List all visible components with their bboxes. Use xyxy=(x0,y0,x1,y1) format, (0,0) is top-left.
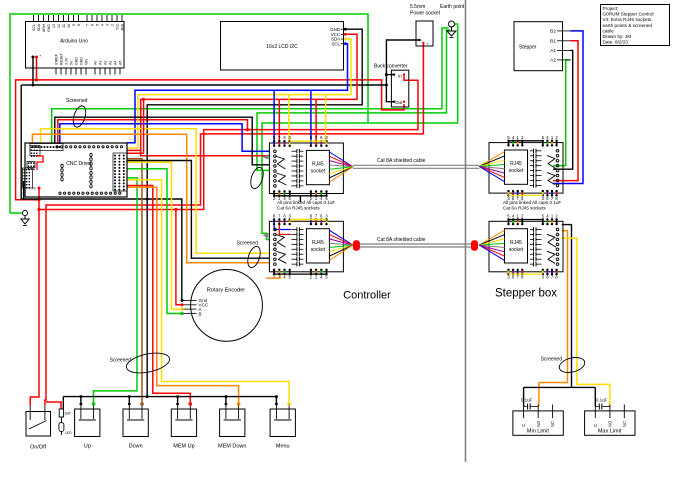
wire black Arduino GND rail xyxy=(33,57,386,85)
svg-text:Out: Out xyxy=(395,100,403,105)
wire red branch into CNC 5V xyxy=(38,188,40,210)
svg-text:A5: A5 xyxy=(118,61,122,65)
svg-text:cable: cable xyxy=(603,28,615,33)
push button SW2 Up xyxy=(75,403,100,450)
wire red LCD VCC to CNC and RJ45 socket 1 xyxy=(141,34,357,156)
wire black GND to rotary encoder Gnd xyxy=(24,199,182,300)
wire brown CNC to Down button xyxy=(127,159,142,404)
project title box xyxy=(601,5,670,46)
svg-text:5: 5 xyxy=(95,24,99,26)
svg-text:A4: A4 xyxy=(113,61,117,65)
wire black stub below RJ45 socket 1 xyxy=(299,197,301,203)
RJ45 socket J4 (stepper box upper) xyxy=(479,135,563,201)
screened cable symbol at button bundle xyxy=(110,350,172,377)
wire black CNC to RJ45 socket 1 row xyxy=(55,117,270,165)
wire red CNC 5V to power rail xyxy=(58,120,248,143)
svg-text:0V: 0V xyxy=(32,187,37,191)
wire blue RJ45 socket 2 pin 8 row xyxy=(274,224,291,230)
screened cable symbol stepper box xyxy=(541,355,587,375)
svg-text:A1: A1 xyxy=(550,48,556,54)
RJ45 socket J2 (controller upper) xyxy=(262,135,353,201)
svg-text:9: 9 xyxy=(72,24,76,26)
junction red xyxy=(246,128,249,131)
svg-text:RJ45: RJ45 xyxy=(510,240,522,246)
wire red CNC to MEM Up button xyxy=(127,186,190,405)
limit switch SW7 Min Limit xyxy=(513,398,563,436)
wire yellow LCD SDA to CNC driver xyxy=(127,39,351,148)
RJ45 socket J5 (stepper box lower) xyxy=(479,214,563,280)
wire orange RJ45 to Min Limit NO xyxy=(539,231,568,406)
wire black CNC to RJ45 socket 2 row xyxy=(127,161,269,259)
svg-text:Screened: Screened xyxy=(237,241,259,247)
junction black bus xyxy=(224,395,227,398)
wire black bus drop to button xyxy=(128,397,130,404)
junction black xyxy=(385,84,388,87)
svg-text:Controller: Controller xyxy=(343,290,391,302)
svg-text:Tx1: Tx1 xyxy=(115,24,119,30)
svg-text:GND: GND xyxy=(79,57,83,65)
push button SW5 MEM Down xyxy=(218,403,246,450)
screened cable symbol top left xyxy=(66,98,88,129)
svg-text:Earth point: Earth point xyxy=(440,4,465,10)
svg-text:0.1uF: 0.1uF xyxy=(521,398,533,403)
junction black bus xyxy=(176,395,179,398)
svg-text:0.1uF: 0.1uF xyxy=(596,398,608,403)
svg-text:socket: socket xyxy=(509,247,524,253)
wire blue CNC to RJ45 socket 1 row xyxy=(60,124,270,152)
wire black jog xyxy=(21,84,33,86)
junction black bus xyxy=(128,395,131,398)
resistor R1 1kR xyxy=(59,409,71,417)
wire red buck In+ rail to On/Off switch left pin xyxy=(30,77,418,405)
svg-text:Cat 8A shielded cable: Cat 8A shielded cable xyxy=(377,158,426,164)
svg-text:Menu: Menu xyxy=(276,444,290,450)
stepper motor M1 xyxy=(514,22,571,71)
wire yellow CNC to encoder A xyxy=(127,162,182,309)
RJ45 socket J3 (controller lower) xyxy=(262,214,353,280)
svg-text:3.3V: 3.3V xyxy=(64,57,68,65)
svg-text:RESET: RESET xyxy=(59,52,63,65)
wire red left rail to On/Off feed xyxy=(16,80,39,200)
wire red drop to RJ45 pin 7 xyxy=(278,99,280,141)
wire green earth: RJ45 socket 1 screen to earth point xyxy=(257,30,450,170)
wire green earth: CNC screen to earth point xyxy=(52,28,449,143)
svg-text:V4: Extra RJ45 sockets,: V4: Extra RJ45 sockets, xyxy=(603,17,653,22)
svg-text:RJ45: RJ45 xyxy=(510,161,522,167)
svg-text:CNC Driver: CNC Driver xyxy=(66,161,92,167)
wire yellow CNC to Menu button xyxy=(127,180,289,404)
CNC driver board U3 xyxy=(23,143,128,197)
screened cable symbol at RJ45 socket 2 xyxy=(237,241,263,270)
wire red RJ45 socket 2 pin 7 row xyxy=(279,224,291,234)
svg-text:In: In xyxy=(398,74,402,79)
push button SW4 MEM Up xyxy=(171,403,196,450)
wire black bus drop to button xyxy=(225,397,227,404)
svg-text:1kR: 1kR xyxy=(65,412,72,416)
wire black button common bus xyxy=(63,396,276,398)
svg-text:4: 4 xyxy=(100,24,104,26)
junction red xyxy=(37,198,40,201)
svg-text:B: B xyxy=(199,311,202,316)
wire red branch to rotary encoder VCC xyxy=(176,210,182,305)
wire orange CNC to RJ45 socket 2 xyxy=(32,134,269,263)
Arduino Uno U1 xyxy=(26,15,125,75)
svg-text:Down: Down xyxy=(129,444,143,450)
wire blue LCD SCL to CNC driver xyxy=(127,44,348,143)
Cat 8A shielded cable lower xyxy=(353,237,478,251)
wire black stepper A1 xyxy=(553,50,573,169)
red cable boot right xyxy=(471,240,478,251)
wire orange CNC to MEM Down button xyxy=(127,187,239,404)
svg-text:SCL: SCL xyxy=(32,24,36,31)
svg-text:Rx0: Rx0 xyxy=(120,24,124,30)
wire blue drop to RJ45 pin 8 xyxy=(310,90,312,141)
wire black bus to LED chain xyxy=(62,397,64,409)
wire yellow RJ45 to Max Limit NO xyxy=(562,238,610,406)
svg-text:NO: NO xyxy=(536,420,541,427)
divider line between Controller and Stepper box sections xyxy=(465,0,467,462)
note text under controller sockets xyxy=(277,200,335,210)
svg-text:Cat 8A shielded cable: Cat 8A shielded cable xyxy=(377,237,426,243)
svg-text:C: C xyxy=(521,424,526,427)
svg-text:G0RUM Stepper Control: G0RUM Stepper Control xyxy=(603,12,654,17)
svg-text:socket: socket xyxy=(311,247,326,253)
svg-text:Project:: Project: xyxy=(603,6,619,11)
svg-text:2: 2 xyxy=(110,24,114,26)
wire black power socket - to buck Out- xyxy=(386,40,419,102)
svg-text:NC: NC xyxy=(622,421,627,427)
svg-text:RJ45: RJ45 xyxy=(312,162,324,168)
svg-text:SCL: SCL xyxy=(331,41,340,46)
chassis ground symbol near CNC xyxy=(21,210,29,225)
svg-text:A1: A1 xyxy=(98,61,102,65)
limit switch SW8 Max Limit xyxy=(585,398,635,436)
svg-text:Arduino Uno: Arduino Uno xyxy=(60,39,88,45)
wire black LCD GND down to button bus xyxy=(147,29,362,396)
svg-text:5V: 5V xyxy=(29,161,34,165)
wire red CNC 5V tee xyxy=(143,99,145,153)
wire red CNC row xyxy=(127,152,144,154)
On/Off switch SW1 xyxy=(26,405,51,451)
svg-text:A0: A0 xyxy=(93,61,97,65)
svg-text:Rotary Encoder: Rotary Encoder xyxy=(207,288,245,294)
svg-text:LED: LED xyxy=(65,431,72,435)
svg-text:Up: Up xyxy=(84,444,91,450)
buck converter U2 xyxy=(374,64,409,108)
svg-text:10: 10 xyxy=(67,24,71,28)
svg-text:Screened: Screened xyxy=(66,98,88,104)
junction red xyxy=(174,208,177,211)
wire red stepper B1 xyxy=(553,41,578,181)
svg-text:C: C xyxy=(593,424,598,427)
junction black xyxy=(32,84,35,87)
note text under stepper sockets xyxy=(503,200,561,210)
svg-text:Cat 6A RJ45 sockets: Cat 6A RJ45 sockets xyxy=(277,205,320,210)
junction black bus xyxy=(275,395,278,398)
junction black xyxy=(385,73,388,76)
wire green earth loop left/top border xyxy=(10,14,368,213)
svg-text:NC: NC xyxy=(550,421,555,427)
svg-text:Min Limit: Min Limit xyxy=(527,429,549,435)
wire black GND down to CNC 0V xyxy=(21,85,23,199)
svg-text:11: 11 xyxy=(62,24,66,28)
svg-text:16x2 LCD I2C: 16x2 LCD I2C xyxy=(266,44,298,50)
svg-text:12: 12 xyxy=(57,24,61,28)
junction red xyxy=(35,78,38,81)
wire black branch buck In- xyxy=(386,74,394,76)
screened cable symbol at RJ45 socket 1 xyxy=(248,166,265,190)
svg-text:A3: A3 xyxy=(108,61,112,65)
svg-text:Stepper: Stepper xyxy=(519,45,537,51)
svg-text:NO: NO xyxy=(608,420,613,427)
push button SW6 Menu xyxy=(270,403,295,450)
svg-text:A2: A2 xyxy=(550,58,556,64)
wire green CNC to encoder B xyxy=(127,169,182,314)
svg-text:MEM Down: MEM Down xyxy=(218,444,246,450)
wire green stepper A2 xyxy=(553,60,571,166)
wire yellow CNC to RJ45 socket 2 xyxy=(41,129,270,254)
16x2 LCD I2C display xyxy=(221,22,347,71)
svg-text:socket: socket xyxy=(509,168,524,174)
svg-text:B1: B1 xyxy=(550,39,556,45)
wire red drop to RJ45 pin 7 xyxy=(315,99,317,141)
push button SW3 Down xyxy=(123,403,148,450)
svg-text:GND: GND xyxy=(47,24,51,32)
junction black bus/CNC xyxy=(146,395,149,398)
svg-text:GND: GND xyxy=(74,57,78,65)
svg-text:Max Limit: Max Limit xyxy=(598,429,622,435)
svg-text:VIN: VIN xyxy=(84,59,88,65)
svg-text:On/Off: On/Off xyxy=(30,445,47,451)
wire green earth: RJ45 socket 2 screen to earth point xyxy=(262,24,458,240)
svg-text:MEM Up: MEM Up xyxy=(173,444,194,450)
wire yellow drop to RJ45 pin 3 xyxy=(325,95,327,142)
svg-text:Cat 6A RJ45 sockets: Cat 6A RJ45 sockets xyxy=(503,205,546,210)
svg-text:8: 8 xyxy=(77,24,81,26)
wire red power socket + to On/Off switch right pin xyxy=(45,44,424,405)
wire red Arduino Vin to buck converter Out+ xyxy=(37,57,405,110)
svg-text:RJ45: RJ45 xyxy=(312,240,324,246)
svg-text:Screened: Screened xyxy=(541,357,563,363)
svg-text:earth points & screened: earth points & screened xyxy=(603,23,653,28)
svg-text:SDA: SDA xyxy=(37,23,41,31)
junction red xyxy=(37,208,40,211)
wire black bus drop to button xyxy=(80,397,82,404)
svg-text:Drawn by: JM: Drawn by: JM xyxy=(603,34,632,39)
wire blue drop to RJ45 pin 8 xyxy=(273,90,275,141)
wire blue stepper B2 xyxy=(553,31,583,184)
wire black bus drop to button xyxy=(177,397,179,404)
wire green to chassis ground xyxy=(10,212,22,214)
svg-text:B2: B2 xyxy=(550,29,556,35)
wire green CNC to Up button xyxy=(94,178,138,404)
rotary encoder ENC1 xyxy=(181,270,263,342)
wire orange elbow below RJ45 socket 2 xyxy=(266,275,280,278)
junction black bus crossing xyxy=(146,198,149,201)
svg-text:13: 13 xyxy=(52,24,56,28)
svg-text:Stepper box: Stepper box xyxy=(495,288,557,300)
svg-text:5V: 5V xyxy=(69,60,73,65)
svg-text:A2: A2 xyxy=(103,61,107,65)
wire black limit common bus xyxy=(524,386,596,388)
svg-text:socket: socket xyxy=(311,169,326,175)
svg-text:IOREF: IOREF xyxy=(54,53,58,65)
svg-text:Date: 8/2/23: Date: 8/2/23 xyxy=(603,40,629,45)
wire black bus drop to button xyxy=(275,397,277,404)
svg-text:ARef: ARef xyxy=(42,24,46,32)
junction red xyxy=(142,98,145,101)
wire black RJ45 to limit commons xyxy=(562,225,572,388)
LED D1 xyxy=(59,417,72,435)
5.5mm power socket J1 xyxy=(410,4,441,46)
earth point terminal xyxy=(440,4,465,38)
wire red On/Off to resistor xyxy=(46,402,61,409)
junction black bus xyxy=(79,395,82,398)
wire red branch into CNC driver xyxy=(127,149,141,151)
svg-text:6: 6 xyxy=(90,24,94,26)
svg-text:Power socket: Power socket xyxy=(410,11,441,17)
svg-text:7: 7 xyxy=(85,24,89,26)
red cable boot left xyxy=(353,240,360,251)
svg-text:3: 3 xyxy=(105,24,109,26)
svg-text:5.5mm: 5.5mm xyxy=(410,4,425,10)
svg-text:Buck converter: Buck converter xyxy=(374,64,408,70)
wire yellow drop to RJ45 pin 3 xyxy=(288,95,290,142)
Cat 8A shielded cable upper xyxy=(353,158,479,168)
